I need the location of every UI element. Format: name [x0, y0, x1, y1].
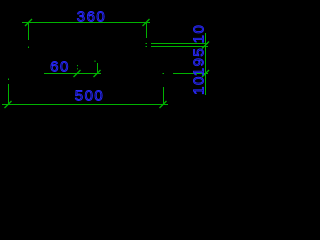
- extension line right of 60: [97, 63, 99, 73]
- tick right of 60: [94, 70, 101, 77]
- tick right of 360: [143, 19, 150, 26]
- svg-text:10: 10: [191, 24, 208, 44]
- tick left of 500: [5, 101, 12, 108]
- right vertical dimension line: [205, 33, 207, 95]
- svg-text:360: 360: [77, 9, 107, 26]
- object line upper bottom dash dot: [146, 46, 148, 48]
- object line lower dash dot: [163, 73, 165, 75]
- svg-text:10: 10: [191, 75, 208, 95]
- dimension line 360: [22, 22, 150, 24]
- object line upper top dash dot: [146, 43, 148, 45]
- extension dotted left of 60: [77, 65, 79, 70]
- tick right of 500: [160, 101, 167, 108]
- extension line right of 500: [163, 87, 165, 104]
- extension dot right of 60: [94, 61, 96, 63]
- svg-text:195: 195: [191, 47, 208, 77]
- svg-text:500: 500: [75, 88, 105, 105]
- tick lower right chain: [202, 70, 209, 77]
- svg-text:60: 60: [50, 59, 70, 76]
- extension line left of 360: [28, 23, 30, 40]
- extension line right of 360: [146, 23, 148, 38]
- dimension line 60: [44, 73, 101, 75]
- extension dash dot left 500: [8, 79, 10, 81]
- tick upper right chain: [202, 42, 209, 49]
- tick left of 360: [25, 19, 32, 26]
- tick left of 60: [74, 70, 81, 77]
- object line upper top (dashed start): [151, 43, 208, 45]
- object line lower: [173, 73, 208, 75]
- dimension line 500: [2, 104, 168, 106]
- extension line left of 500: [8, 84, 10, 104]
- extension dash dot left 360: [28, 47, 30, 49]
- object line upper bottom: [151, 46, 208, 48]
